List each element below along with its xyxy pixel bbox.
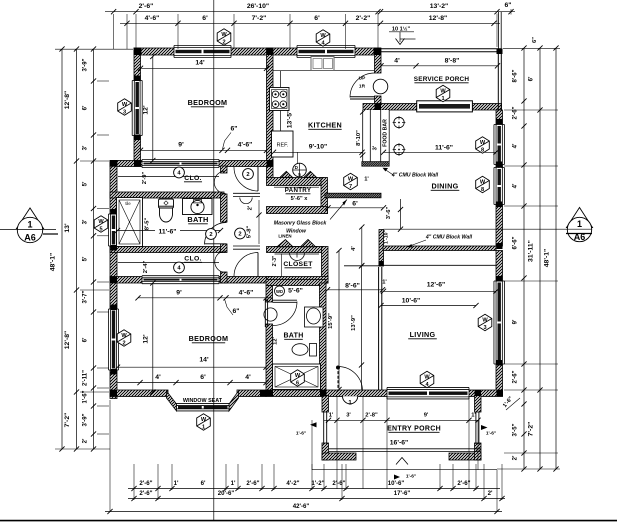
svg-text:5'-8": 5'-8" bbox=[247, 226, 253, 239]
wall service porch south bbox=[363, 104, 502, 111]
svg-text:10'-6": 10'-6" bbox=[402, 297, 420, 304]
svg-text:2'-6": 2'-6" bbox=[513, 370, 519, 383]
corner block bath2 SW bbox=[266, 390, 273, 397]
window seat window W1 bbox=[177, 403, 230, 411]
living dim 15-9 bbox=[338, 251, 340, 390]
svg-text:6': 6' bbox=[529, 76, 535, 81]
bath1 pocket arc upper bbox=[214, 171, 225, 194]
svg-text:13'-2": 13'-2" bbox=[430, 3, 448, 10]
corner block porch SP SW bbox=[375, 104, 382, 111]
svg-text:3'-6": 3'-6" bbox=[386, 207, 392, 220]
svg-text:2'-4": 2'-4" bbox=[143, 261, 149, 274]
closet shelf line bbox=[275, 253, 320, 255]
corner block dining jog bbox=[379, 261, 384, 267]
svg-text:CLO.: CLO. bbox=[184, 175, 201, 182]
svg-text:2': 2' bbox=[83, 438, 89, 443]
svg-text:4'-6": 4'-6" bbox=[145, 15, 160, 22]
hall shelf lower bbox=[233, 245, 260, 247]
tag door clo lower bbox=[174, 262, 185, 273]
svg-text:1: 1 bbox=[27, 220, 32, 230]
wall closet east bbox=[322, 247, 329, 284]
svg-text:12': 12' bbox=[273, 336, 279, 344]
corner block porch right top bbox=[475, 390, 482, 396]
porch dim line bbox=[324, 419, 478, 421]
svg-text:W: W bbox=[122, 102, 128, 108]
wall closet south bbox=[267, 277, 329, 284]
svg-text:PANTRY: PANTRY bbox=[285, 187, 312, 194]
entry porch east low wall bbox=[475, 412, 477, 444]
dim left chain outer line bbox=[61, 49, 63, 449]
corner block bedroom2 SE bbox=[260, 390, 267, 397]
svg-text:4': 4' bbox=[245, 374, 251, 381]
dining bar stool 2 bbox=[394, 144, 404, 154]
jamb block j bbox=[496, 276, 503, 282]
svg-text:6': 6' bbox=[83, 105, 89, 110]
svg-text:4" CMU Block Wall: 4" CMU Block Wall bbox=[425, 235, 473, 241]
living dim 13-9 bbox=[361, 266, 363, 390]
svg-text:2'-6": 2'-6" bbox=[139, 480, 152, 487]
section marker right 1/A6 bbox=[567, 208, 593, 228]
service porch dim line bbox=[381, 65, 498, 67]
svg-text:W: W bbox=[482, 317, 488, 323]
wall bedroom2 south B bbox=[237, 390, 266, 397]
svg-text:1'-6": 1'-6" bbox=[296, 431, 306, 437]
bedroom2 dim 12ft bbox=[152, 283, 154, 392]
dim right chain mid line bbox=[539, 48, 541, 469]
svg-text:tile: tile bbox=[125, 201, 131, 206]
svg-text:16'-6": 16'-6" bbox=[390, 440, 408, 447]
svg-text:2'-8": 2'-8" bbox=[365, 413, 378, 419]
dim bottom row2 line bbox=[128, 498, 505, 500]
wall left bedroom1 exterior bbox=[134, 48, 141, 166]
dim top row A line bbox=[105, 11, 515, 13]
kitchen sink bbox=[311, 57, 334, 71]
svg-text:15'-9": 15'-9" bbox=[328, 313, 334, 329]
svg-text:9'-10": 9'-10" bbox=[309, 144, 327, 151]
wall bath2 east bbox=[320, 283, 327, 392]
window tag W2 left lower bbox=[117, 330, 131, 346]
svg-text:W: W bbox=[440, 88, 446, 94]
svg-text:14': 14' bbox=[195, 60, 205, 67]
hall shelf arc upper bbox=[240, 198, 252, 204]
living dim 4ft vertical bbox=[361, 227, 363, 266]
svg-text:4" CMU Block Wall: 4" CMU Block Wall bbox=[391, 173, 439, 179]
wall bedroom2 south A bbox=[110, 390, 168, 397]
wall bath interior upper bbox=[110, 192, 224, 198]
svg-text:3'-9": 3'-9" bbox=[83, 58, 89, 71]
svg-text:W: W bbox=[424, 374, 430, 380]
svg-text:UP: UP bbox=[359, 76, 366, 82]
porch bottom dim line bbox=[312, 468, 497, 470]
svg-text:1: 1 bbox=[441, 96, 444, 102]
dim top extension lines bbox=[113, 14, 115, 49]
closet sliding doors bedroom1 bbox=[142, 160, 219, 168]
svg-text:KITCHEN: KITCHEN bbox=[308, 121, 342, 130]
wall bath2 north bbox=[266, 280, 326, 286]
svg-text:9': 9' bbox=[513, 319, 519, 324]
svg-text:1': 1' bbox=[329, 413, 334, 419]
svg-text:1': 1' bbox=[471, 413, 476, 419]
dim bottom row3 line bbox=[105, 511, 502, 513]
wall right exterior living bbox=[496, 251, 503, 396]
svg-text:W: W bbox=[221, 32, 227, 38]
svg-text:2'-11": 2'-11" bbox=[83, 370, 89, 386]
porch bottom arrow bbox=[396, 458, 408, 465]
wall living west (frame) bbox=[378, 267, 380, 390]
svg-text:1'-6": 1'-6" bbox=[83, 390, 89, 403]
svg-text:7'-2": 7'-2" bbox=[252, 15, 267, 22]
svg-text:3'-5": 3'-5" bbox=[513, 423, 519, 436]
wall bedroom1 south / bath north bbox=[110, 161, 273, 167]
svg-text:2'-3": 2'-3" bbox=[272, 255, 278, 266]
svg-text:12': 12' bbox=[143, 105, 150, 115]
svg-text:4': 4' bbox=[513, 143, 519, 148]
svg-text:3': 3' bbox=[373, 145, 379, 150]
bath1 door leaf bbox=[205, 243, 227, 245]
svg-text:W: W bbox=[480, 179, 486, 185]
svg-text:W: W bbox=[480, 140, 486, 146]
svg-text:8'-10": 8'-10" bbox=[356, 130, 362, 146]
svg-text:7'-2": 7'-2" bbox=[528, 422, 535, 437]
svg-text:FOOD BAR: FOOD BAR bbox=[383, 119, 389, 147]
wall bottom exterior living bbox=[266, 390, 503, 397]
svg-text:ENTRY PORCH: ENTRY PORCH bbox=[387, 426, 441, 433]
window tag W3 living bbox=[478, 314, 492, 330]
hall door lower swing arc bbox=[234, 253, 258, 278]
wall kitchen east upper bbox=[375, 48, 382, 73]
entry porch sill SE bbox=[449, 453, 481, 460]
svg-text:9': 9' bbox=[178, 142, 184, 149]
entry porch pillar SW bbox=[322, 443, 329, 460]
wall pantry east bbox=[321, 178, 328, 214]
window tag W6 bath2 shower bbox=[291, 370, 305, 386]
svg-text:6": 6" bbox=[230, 126, 237, 133]
bedroom1 dim 9ft 4-6 bbox=[141, 149, 267, 151]
kitchen counter lines bbox=[273, 70, 375, 72]
svg-text:A6: A6 bbox=[24, 233, 36, 243]
corner block top-left bbox=[134, 48, 142, 55]
hall door lower leaf bbox=[257, 253, 259, 278]
dim left chain inner line bbox=[93, 49, 95, 449]
svg-text:7: 7 bbox=[349, 184, 352, 190]
clo upper rod line bbox=[118, 176, 219, 178]
living door swing arc bbox=[338, 367, 363, 392]
closet door arc bbox=[290, 253, 305, 261]
svg-text:4': 4' bbox=[155, 374, 161, 381]
entry porch pillar NE bbox=[475, 396, 482, 413]
svg-text:6': 6' bbox=[200, 374, 206, 381]
wall bath interior lower bbox=[110, 247, 224, 253]
svg-text:6': 6' bbox=[201, 480, 206, 487]
wall bedroom1/kitchen bbox=[267, 48, 274, 178]
svg-text:5': 5' bbox=[83, 256, 89, 261]
window tag W2 top bbox=[217, 29, 231, 45]
dim right chain inner line bbox=[523, 48, 525, 469]
corner block bedroom1 SE bbox=[267, 160, 274, 167]
corner block bed/kitchen top bbox=[267, 48, 274, 55]
bath2 toilet bbox=[310, 344, 317, 357]
svg-text:2'-9": 2'-9" bbox=[142, 172, 148, 185]
jamb block k bbox=[496, 360, 503, 366]
hall door upper swing arc bbox=[234, 167, 258, 192]
pass window service porch W1 bbox=[417, 101, 473, 112]
svg-text:12'-8": 12'-8" bbox=[64, 331, 71, 349]
svg-text:WINDOW SEAT: WINDOW SEAT bbox=[183, 398, 223, 404]
svg-text:6'-6": 6'-6" bbox=[513, 236, 519, 249]
svg-text:42'-6": 42'-6" bbox=[293, 503, 310, 510]
svg-text:SERVICE PORCH: SERVICE PORCH bbox=[414, 76, 470, 83]
window tag W7 glass block bbox=[344, 173, 358, 189]
svg-text:2'-6": 2'-6" bbox=[457, 480, 470, 487]
tag door pantry quartered bbox=[293, 163, 307, 177]
dim top row B line bbox=[120, 22, 500, 24]
svg-text:1'-2": 1'-2" bbox=[311, 480, 324, 487]
svg-text:2: 2 bbox=[246, 172, 249, 178]
kitchen refrigerator bbox=[272, 131, 294, 157]
wall bath2 west lower bbox=[266, 324, 273, 392]
jamb block g bbox=[496, 119, 503, 125]
corner block dining SE bbox=[497, 243, 503, 249]
entry porch west low wall bbox=[323, 412, 325, 444]
bath1 door swing arc bbox=[205, 223, 227, 245]
svg-text:4': 4' bbox=[351, 246, 357, 251]
corner block bedroom2 SW bbox=[110, 390, 117, 397]
jamb block b bbox=[134, 135, 141, 141]
bath1 pocket arc lower bbox=[215, 251, 226, 273]
svg-text:11'-6": 11'-6" bbox=[435, 145, 453, 152]
wall bath south / bedroom2 north bbox=[110, 277, 273, 284]
svg-text:2'-6": 2'-6" bbox=[332, 480, 345, 487]
dim bottom extension lines bbox=[133, 464, 135, 490]
window kitchen top W4 bbox=[297, 46, 355, 58]
svg-text:12'-8": 12'-8" bbox=[429, 15, 447, 22]
svg-text:W: W bbox=[201, 417, 207, 423]
tag door bath1 bbox=[206, 229, 217, 240]
bath2 lavatory bbox=[305, 307, 324, 327]
window bath left W5 bbox=[109, 214, 119, 246]
section cut line horizontal right bbox=[384, 228, 568, 230]
window tag W3 left bbox=[118, 99, 132, 115]
corner block bath NW bbox=[110, 160, 117, 167]
dim bottom row1 line bbox=[128, 488, 500, 490]
wall bath2 west bbox=[266, 286, 273, 303]
svg-text:1: 1 bbox=[202, 424, 205, 430]
svg-text:8'-8": 8'-8" bbox=[445, 57, 460, 64]
bath2 door swing arc bbox=[273, 302, 297, 326]
svg-text:48'-1": 48'-1" bbox=[50, 253, 57, 271]
svg-text:9': 9' bbox=[176, 290, 182, 297]
window living right W3 bbox=[494, 281, 505, 364]
svg-text:4': 4' bbox=[394, 57, 400, 64]
living door leaf (dashed) bbox=[337, 367, 339, 392]
bedroom1 dim 12ft bbox=[152, 57, 154, 161]
bath1 toilet bbox=[159, 199, 174, 208]
food bar counter cap bbox=[362, 162, 389, 167]
svg-text:1': 1' bbox=[231, 480, 236, 487]
svg-text:10'-6": 10'-6" bbox=[388, 480, 405, 487]
wall pantry south bbox=[267, 207, 328, 214]
svg-text:1R: 1R bbox=[359, 84, 366, 90]
svg-text:8: 8 bbox=[481, 147, 484, 153]
svg-text:W: W bbox=[98, 219, 104, 225]
svg-text:BEDROOM: BEDROOM bbox=[188, 98, 228, 107]
tag door clo upper bbox=[174, 167, 185, 178]
svg-text:2: 2 bbox=[122, 340, 125, 346]
svg-text:6': 6' bbox=[83, 337, 89, 342]
dim right extension stubs bbox=[503, 47, 560, 49]
bedroom1 dim 14ft bbox=[141, 67, 267, 69]
svg-text:2: 2 bbox=[222, 39, 225, 45]
svg-text:2': 2' bbox=[513, 455, 519, 460]
window dining right W8 lower bbox=[494, 168, 505, 205]
wall left bath+bedroom2 exterior bbox=[110, 161, 117, 399]
svg-text:4'-6": 4'-6" bbox=[238, 142, 253, 149]
svg-text:6: 6 bbox=[296, 380, 299, 386]
svg-text:3': 3' bbox=[83, 219, 89, 224]
svg-text:26'-10": 26'-10" bbox=[247, 3, 269, 10]
hall door tag 2b bbox=[235, 228, 246, 239]
svg-text:BATH: BATH bbox=[283, 333, 303, 340]
closet sliding doors bedroom2 bbox=[142, 276, 219, 284]
wall bath east lower bbox=[221, 272, 228, 283]
svg-text:3'-9": 3'-9" bbox=[83, 413, 89, 426]
svg-text:BEDROOM: BEDROOM bbox=[189, 334, 229, 343]
window tag W1 service porch bbox=[436, 85, 450, 101]
svg-text:W: W bbox=[121, 333, 127, 339]
svg-text:12'-6": 12'-6" bbox=[427, 281, 445, 288]
svg-text:9': 9' bbox=[424, 413, 429, 419]
window tag W4 living bottom bbox=[420, 371, 434, 387]
wall kitchen east stub bbox=[375, 96, 382, 110]
svg-text:REF.: REF. bbox=[277, 143, 289, 149]
svg-text:LIVING: LIVING bbox=[410, 330, 436, 339]
water heater service porch bbox=[373, 79, 388, 94]
svg-text:6': 6' bbox=[202, 15, 208, 22]
bedroom2 door leaf closed bbox=[264, 299, 266, 327]
living north edge line bbox=[344, 265, 379, 267]
svg-text:48'-1": 48'-1" bbox=[544, 249, 551, 267]
porch vertical extension lines bbox=[336, 396, 338, 489]
svg-text:6": 6" bbox=[232, 308, 239, 315]
corner block living SE bbox=[497, 390, 504, 397]
svg-text:WD: WD bbox=[276, 289, 283, 294]
svg-text:2': 2' bbox=[248, 205, 254, 210]
svg-text:3': 3' bbox=[346, 413, 351, 419]
svg-text:17'-6": 17'-6" bbox=[394, 490, 411, 497]
bottom sheet border line bbox=[0, 520, 617, 522]
svg-text:8'-5": 8'-5" bbox=[145, 218, 151, 231]
svg-text:2: 2 bbox=[238, 232, 241, 238]
svg-text:8'-6": 8'-6" bbox=[513, 69, 519, 82]
dim left extension stubs bbox=[55, 48, 133, 50]
jamb block a bbox=[134, 76, 141, 82]
kitchen door leaf bbox=[350, 96, 375, 98]
entry porch sill SW bbox=[322, 453, 356, 460]
svg-text:5: 5 bbox=[298, 172, 301, 177]
wall bath east upper bbox=[221, 166, 228, 173]
pantry shelf triangles bbox=[280, 171, 293, 177]
svg-text:4'-2": 4'-2" bbox=[286, 480, 299, 487]
window tag W4 top bbox=[316, 30, 330, 46]
entry porch pillar SE bbox=[475, 443, 482, 460]
svg-text:6': 6' bbox=[352, 200, 358, 207]
svg-text:BATH: BATH bbox=[187, 215, 208, 224]
svg-text:5: 5 bbox=[99, 226, 102, 232]
window dining right W8 upper bbox=[494, 125, 505, 165]
svg-text:13'-5": 13'-5" bbox=[287, 110, 294, 128]
closet shelf triangles bbox=[277, 240, 293, 247]
corner block kitchen NE bbox=[374, 48, 382, 55]
svg-text:31'-11": 31'-11" bbox=[528, 240, 535, 262]
svg-text:Masonry Glass Block: Masonry Glass Block bbox=[274, 221, 328, 227]
dim right chain outer line bbox=[555, 48, 557, 469]
svg-text:8: 8 bbox=[481, 187, 484, 193]
wall dining southwest jog bbox=[379, 230, 384, 267]
corner block bath2 SE bbox=[320, 390, 327, 397]
entry door arc with tag 1 bbox=[343, 396, 358, 404]
window bedroom2 left W2 bbox=[109, 309, 119, 370]
svg-text:2'-6": 2'-6" bbox=[139, 490, 152, 497]
window tag W5 left bbox=[94, 216, 108, 232]
svg-text:W: W bbox=[295, 373, 301, 379]
svg-text:3: 3 bbox=[483, 325, 486, 331]
window tag W8 dining lower bbox=[476, 176, 490, 192]
svg-text:6': 6' bbox=[314, 15, 320, 22]
window tag W8 dining upper bbox=[476, 137, 490, 153]
section cut line vertical bbox=[213, 0, 215, 521]
svg-text:5'-6" x: 5'-6" x bbox=[291, 196, 309, 202]
tag door bedroom1 bbox=[243, 169, 254, 180]
wall bath east lower-mid bbox=[221, 244, 228, 253]
svg-text:DINING: DINING bbox=[432, 182, 459, 191]
wall top exterior (bedroom+kitchen) bbox=[134, 48, 381, 55]
svg-text:CLO.: CLO. bbox=[184, 256, 201, 263]
svg-text:20'-6": 20'-6" bbox=[218, 490, 235, 497]
svg-text:1': 1' bbox=[382, 280, 387, 286]
svg-text:2': 2' bbox=[488, 490, 493, 497]
svg-text:3: 3 bbox=[123, 109, 126, 115]
svg-text:1'-10": 1'-10" bbox=[384, 229, 390, 244]
wall pantry north bbox=[267, 178, 326, 186]
corner block bath SW bbox=[110, 277, 117, 284]
section marker left 1/A6 bbox=[17, 208, 44, 229]
jamb block d bbox=[111, 245, 118, 251]
corner block porch NE bbox=[497, 49, 503, 55]
jamb block f bbox=[111, 369, 118, 375]
jamb block e bbox=[111, 305, 118, 311]
food bar counter lines bbox=[363, 110, 390, 162]
svg-text:1'-6": 1'-6" bbox=[406, 474, 416, 480]
svg-text:8'-6": 8'-6" bbox=[345, 282, 360, 289]
svg-text:11'-6": 11'-6" bbox=[158, 229, 176, 236]
svg-text:13'-9": 13'-9" bbox=[351, 315, 357, 331]
wall bath east mid bbox=[221, 194, 228, 222]
entry porch south low wall bbox=[329, 448, 481, 450]
bath1 shower bbox=[117, 198, 143, 247]
jamb block h bbox=[496, 162, 503, 168]
window living bottom W4 bbox=[387, 387, 469, 399]
jamb block i bbox=[496, 202, 503, 208]
window seat wing right bbox=[229, 391, 239, 411]
svg-text:4'-6": 4'-6" bbox=[239, 290, 254, 297]
window tag W1 bottom bbox=[197, 414, 211, 430]
svg-text:1: 1 bbox=[577, 219, 582, 229]
svg-text:2'-6": 2'-6" bbox=[513, 106, 519, 119]
svg-text:W: W bbox=[320, 33, 326, 39]
entry porch pillar NW bbox=[322, 396, 329, 413]
corner block bedroom1 SW bbox=[134, 160, 141, 167]
washer dryer tag bbox=[275, 286, 285, 296]
